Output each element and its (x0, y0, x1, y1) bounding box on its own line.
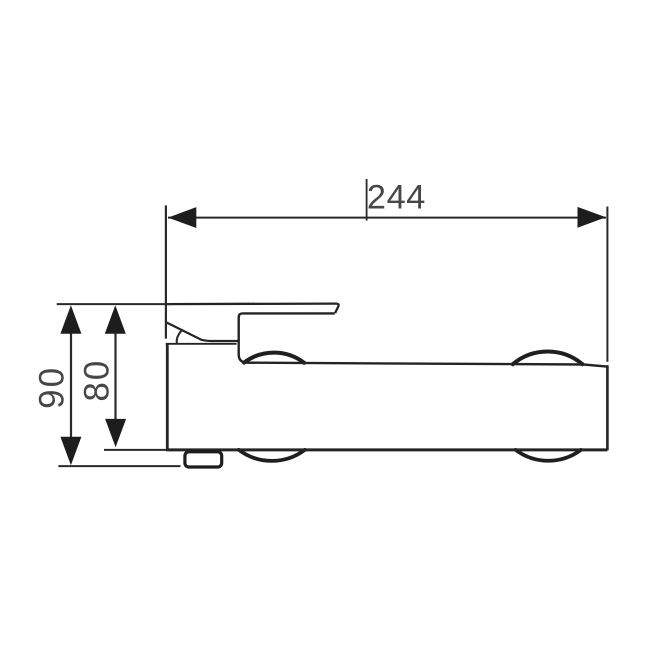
faucet body left edge (166, 344, 169, 451)
dimension 244: right arrowhead (578, 207, 606, 228)
svg-text:90: 90 (33, 366, 72, 409)
outlet foot (rounded rectangle below body) (185, 452, 222, 467)
handle lever underside diagonal (167, 323, 238, 342)
svg-text:80: 80 (77, 359, 116, 402)
dimension 80: bottom extension line (104, 449, 167, 451)
handle lever blade top and tip (166, 304, 339, 314)
dimension 80: shaft (114, 332, 116, 421)
dimension 80: top arrowhead (105, 305, 126, 334)
dimension 90: bottom extension line (58, 465, 180, 467)
dimension 244: left extension line (165, 205, 167, 338)
left union nut: bottom arc (239, 450, 305, 461)
left union nut: top arc (cartridge dome) (244, 353, 304, 363)
faucet body right edge (606, 365, 609, 450)
cartridge neck and step to body top (239, 313, 335, 362)
dimension 244: left arrowhead (168, 207, 196, 228)
dimension 80: bottom arrowhead (105, 419, 126, 447)
left dims: top extension line (57, 303, 170, 305)
faucet body bottom edge (166, 448, 607, 451)
dimension 244: dimension line (168, 217, 606, 219)
faucet body top edge (247, 363, 608, 367)
svg-text:244: 244 (367, 179, 426, 217)
dimension 244: tick mark at label (366, 179, 368, 221)
dimension 90: bottom arrowhead (60, 437, 81, 466)
dimension 90: shaft (70, 332, 72, 439)
right union nut: top arc (513, 351, 583, 364)
right union nut: bottom arc (516, 450, 581, 461)
dimension 90: top arrowhead (60, 305, 81, 334)
dimension 244: right extension line (606, 207, 608, 362)
base cap ledge line (166, 343, 237, 345)
handle front lower arc (177, 331, 182, 344)
